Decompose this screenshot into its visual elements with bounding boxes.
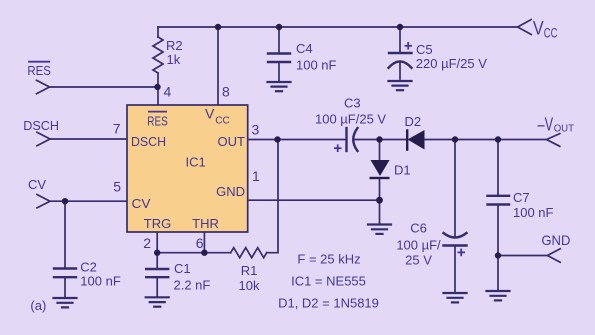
ground C2: [54, 298, 77, 307]
svg-text:1: 1: [252, 168, 260, 184]
wire C2 top stub: [64, 201, 66, 268]
svg-text:100 nF: 100 nF: [513, 205, 554, 220]
wire C4 bottom stub: [278, 62, 280, 82]
wire node A to D2: [380, 139, 408, 141]
wire C3 to node A: [355, 139, 380, 141]
capacitor C6 plus sign: [458, 249, 466, 257]
svg-text:100 µF/: 100 µF/: [396, 238, 441, 253]
svg-text:2: 2: [143, 235, 151, 251]
svg-text:6: 6: [196, 235, 204, 251]
wire C1 top stub: [156, 253, 158, 269]
wire TRG-THR net to R1: [157, 252, 231, 254]
ground C6: [444, 293, 467, 302]
connector DSCH input arrow: [37, 132, 50, 145]
wire R1 to feedback riser: [267, 140, 278, 253]
capacitor C4: [268, 54, 290, 63]
capacitor C6: [444, 233, 467, 246]
node junction TRG: [154, 250, 160, 256]
node junction C7 GND: [495, 252, 501, 258]
node junction D1 pin1 ground: [376, 197, 383, 204]
svg-text:OUT: OUT: [218, 134, 246, 149]
svg-text:IC1: IC1: [186, 155, 206, 170]
capacitor C2: [54, 269, 76, 278]
ground C4: [268, 82, 291, 91]
svg-text:100 nF: 100 nF: [80, 274, 121, 289]
svg-text:2.2 nF: 2.2 nF: [174, 278, 211, 293]
svg-text:V: V: [533, 19, 544, 40]
svg-text:RES: RES: [27, 63, 51, 78]
ground C1: [146, 297, 169, 306]
svg-text:220 µF/25 V: 220 µF/25 V: [416, 56, 487, 71]
wire pin 3 OUT to C3: [248, 139, 347, 141]
svg-text:100 µF/25 V: 100 µF/25 V: [315, 112, 386, 127]
svg-text:3: 3: [252, 122, 260, 138]
svg-text:10k: 10k: [239, 278, 260, 293]
wire C7 bottom stub: [497, 205, 499, 292]
wire C7 top stub: [497, 140, 499, 196]
capacitor C5 plus sign: [405, 42, 413, 50]
svg-text:CV: CV: [28, 177, 46, 192]
svg-text:D1, D2 = 1N5819: D1, D2 = 1N5819: [278, 296, 379, 311]
svg-text:8: 8: [222, 84, 230, 100]
IC IC1 (NE555) body: [127, 105, 248, 232]
wire C6 top stub: [454, 140, 456, 238]
node junction RES R2: [154, 84, 160, 90]
svg-text:F = 25 kHz: F = 25 kHz: [297, 252, 360, 267]
wire C6 bottom stub: [454, 246, 456, 294]
wire D1 top lead: [379, 140, 381, 161]
svg-text:THR: THR: [192, 216, 219, 231]
svg-text:CV: CV: [132, 196, 151, 211]
diode D2: [408, 130, 425, 150]
svg-text:OUT: OUT: [554, 123, 575, 135]
wire C1 bottom stub: [156, 277, 158, 297]
wire RES input to R2 bottom: [50, 86, 158, 88]
ground C5: [389, 81, 412, 90]
svg-text:C7: C7: [513, 190, 530, 205]
wire D1 bottom lead to ground node: [379, 178, 381, 225]
wire R2 top lead: [157, 27, 159, 37]
svg-text:CC: CC: [544, 25, 558, 40]
svg-text:25 V: 25 V: [405, 253, 432, 268]
svg-text:GND: GND: [216, 184, 245, 199]
node junction C7: [495, 136, 501, 142]
node junction top rail pin8: [215, 24, 221, 30]
svg-text:1k: 1k: [167, 52, 181, 67]
node junction OUT feedback: [274, 136, 280, 142]
wire GND node to GND connector: [498, 255, 547, 257]
node junction THR: [201, 250, 207, 256]
wire R2 bottom to pin 4: [157, 73, 159, 105]
connector RES input arrow: [37, 80, 50, 93]
connector GND output arrow: [547, 249, 560, 262]
svg-text:CC: CC: [215, 116, 229, 127]
resistor R1: [231, 248, 267, 258]
svg-text:R1: R1: [241, 263, 258, 278]
capacitor C1: [146, 269, 168, 277]
svg-text:7: 7: [113, 120, 121, 136]
wire pin 1 GND to ground node: [248, 199, 380, 201]
svg-text:R2: R2: [166, 38, 183, 53]
connector -VOUT output arrow: [547, 134, 560, 147]
svg-text:DSCH: DSCH: [131, 134, 166, 149]
ground node D1: [368, 225, 391, 234]
svg-text:C1: C1: [174, 261, 191, 276]
svg-text:100 nF: 100 nF: [296, 58, 337, 73]
svg-text:IC1 = NE555: IC1 = NE555: [291, 274, 366, 289]
svg-text:V: V: [205, 105, 215, 121]
node A junction C3 D1 D2: [376, 136, 382, 142]
ground C7: [487, 291, 510, 300]
svg-text:5: 5: [113, 179, 121, 195]
diode D1: [371, 160, 390, 176]
wire pin 2 TRG: [156, 232, 158, 253]
capacitor C5 plates: [389, 53, 412, 68]
connector VCC output arrow: [518, 20, 532, 35]
capacitor C3: [347, 128, 358, 151]
wire C4 top stub: [278, 27, 280, 54]
node junction CV C2: [62, 198, 68, 204]
node junction top rail C5: [397, 24, 403, 30]
wire C5 top stub: [399, 27, 401, 53]
svg-text:D2: D2: [405, 114, 422, 129]
svg-text:D1: D1: [394, 163, 411, 178]
node junction top rail C4: [276, 24, 282, 30]
wire pin 6 THR: [203, 232, 205, 253]
wire DSCH input to pin 7: [50, 138, 127, 140]
svg-text:C3: C3: [344, 96, 361, 111]
node junction C6: [452, 136, 458, 142]
wire top rail VCC: [158, 26, 517, 28]
resistor R2: [153, 37, 163, 73]
capacitor C7: [488, 196, 510, 205]
wire C2 bottom stub: [64, 277, 66, 298]
svg-text:C6: C6: [410, 221, 427, 236]
svg-text:TRG: TRG: [144, 216, 171, 231]
svg-text:C2: C2: [80, 260, 97, 275]
svg-text:C4: C4: [296, 41, 313, 56]
svg-text:4: 4: [164, 84, 172, 100]
svg-text:–V: –V: [538, 114, 554, 134]
wire pin 8: [217, 27, 219, 105]
svg-text:GND: GND: [541, 232, 570, 248]
wire C5 bottom stub: [399, 63, 401, 82]
wire CV input to pin 5: [50, 200, 127, 202]
svg-text:RES: RES: [147, 113, 168, 128]
wire D2 to output rail: [425, 139, 547, 141]
svg-text:(a): (a): [30, 298, 46, 313]
svg-text:DSCH: DSCH: [23, 118, 59, 133]
connector CV input arrow: [37, 195, 50, 208]
capacitor C3 plus sign: [334, 144, 342, 152]
svg-text:C5: C5: [416, 42, 433, 57]
